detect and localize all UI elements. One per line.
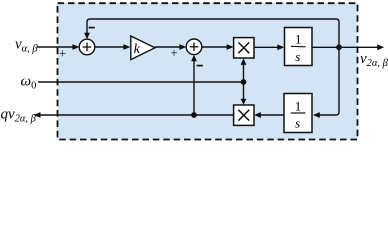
svg-text:ω0: ω0 — [21, 74, 37, 92]
omega_0 label — [21, 74, 37, 92]
wire: v input into summer S1 — [37, 44, 79, 50]
svg-text:1: 1 — [295, 98, 302, 113]
wire: U1 output to node N1 and out of box — [312, 44, 384, 50]
svg-text:+: + — [59, 47, 66, 61]
multiplier M2 — [234, 105, 254, 125]
summing junction S2 — [186, 39, 202, 55]
minus sign (feedback into S2) — [197, 65, 203, 67]
svg-text:1: 1 — [295, 32, 302, 47]
node N3 (junction dot on qv line) — [191, 112, 197, 118]
svg-text:k: k — [134, 42, 141, 57]
svg-text:+: + — [170, 46, 177, 60]
wire: node N2 down into M2 — [241, 82, 247, 105]
integrator U2 (1/s) — [284, 94, 312, 133]
svg-text:qv2α, β: qv2α, β — [1, 107, 37, 125]
wire: node N1 down to integrator U2 — [313, 47, 339, 118]
integrator U1 (1/s) — [285, 28, 313, 66]
wire: M1 to integrator U1 — [254, 44, 284, 50]
wire: U2 output to multiplier M2 — [254, 112, 284, 118]
plus sign (input of S2) — [170, 46, 177, 60]
wire: top feedback from node N1 down into S1 — [84, 19, 339, 45]
wire: gain k to summer S2 — [155, 44, 186, 50]
node N2 (junction dot on omega_0 line) — [241, 79, 247, 85]
plus sign (input of S1) — [59, 47, 66, 61]
summing junction S1 — [79, 39, 95, 55]
svg-text:s: s — [295, 115, 300, 130]
input label v_alpha,beta — [15, 37, 38, 55]
wire: S1 to gain k — [95, 44, 131, 50]
output label qv_2alpha,beta — [1, 107, 37, 125]
svg-text:v2α, β: v2α, β — [360, 51, 388, 69]
wire: M2 output to qv output (leftward) — [34, 112, 234, 118]
minus sign (feedback into S1) — [89, 27, 95, 29]
wire: S2 to multiplier M1 — [202, 44, 234, 50]
node N1 (junction dot) — [336, 44, 342, 50]
wire: node N2 up into M1 — [241, 58, 247, 82]
wire: omega_0 input to node N2 — [38, 81, 244, 83]
multiplier M1 — [234, 38, 254, 58]
svg-text:s: s — [295, 49, 300, 64]
output label v_2alpha,beta — [360, 51, 388, 69]
gain block k (triangle) — [131, 36, 155, 60]
boundary box (dashed, light-blue fill) — [58, 3, 358, 139]
wire: node N3 up into S2 (minus input) — [191, 55, 197, 115]
svg-text:vα, β: vα, β — [15, 37, 38, 55]
